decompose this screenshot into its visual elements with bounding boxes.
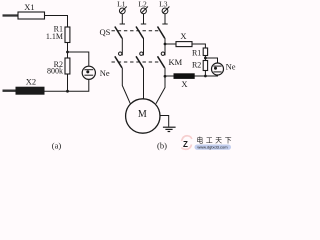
probe X2 tip: [3, 89, 17, 91]
node tester tap after QS: [164, 43, 167, 46]
resistor R2: [65, 58, 70, 74]
resistor R1: [65, 27, 70, 43]
terminal L2: [141, 7, 148, 14]
svg-text:www.dgtxd3.com: www.dgtxd3.com: [197, 145, 228, 150]
svg-text:M: M: [138, 109, 147, 120]
resistor R1 (b): [203, 48, 207, 56]
node bottom (b): [204, 75, 207, 78]
watermark logo: [182, 136, 192, 150]
svg-text:(a): (a): [52, 140, 62, 150]
svg-text:Z: Z: [183, 140, 188, 149]
svg-text:R2: R2: [192, 60, 201, 69]
wire L2 to QS contact: [141, 14, 146, 24]
contactor KM pole 1 contact: [119, 52, 122, 55]
svg-text:KM: KM: [169, 57, 183, 67]
contactor KM pole 2 blade: [136, 56, 143, 68]
ground: [163, 127, 176, 131]
contactor KM pole 2 contact: [140, 52, 143, 55]
contactor KM pole 3 contact: [161, 52, 164, 55]
wire L3 to QS contact: [162, 14, 167, 24]
switch QS pole 1 blade: [115, 27, 122, 39]
wire L1 to QS contact: [120, 14, 125, 24]
wire lamp bottom to junction: [44, 79, 89, 91]
node tester tap after KM: [164, 75, 167, 78]
QS linkage dashed: [112, 30, 160, 32]
terminal L3: [162, 7, 169, 14]
wire R1 to node: [67, 43, 69, 59]
svg-text:R1: R1: [192, 49, 201, 58]
wire probe X black to KM node: [165, 75, 174, 77]
wire node to lamp: [68, 52, 89, 66]
contactor KM pole 1 blade: [115, 56, 122, 68]
wire probe X to R1: [192, 44, 205, 48]
neon lamp Ne (b): [212, 63, 224, 75]
svg-text:X2: X2: [26, 77, 36, 87]
node R1/R2 junction: [66, 51, 69, 54]
neon lamp Ne (a): [82, 66, 95, 79]
wire KM to motor phase 1: [122, 68, 130, 104]
probe X (white body): [176, 42, 192, 47]
svg-text:Ne: Ne: [100, 68, 110, 78]
wire R1 to node (b): [204, 56, 206, 61]
svg-text:电工天下: 电工天下: [197, 136, 235, 145]
probe X1 body: [18, 12, 45, 19]
wire X1 to R1: [45, 16, 68, 28]
probe X (black body): [174, 74, 194, 79]
wire QS to KM pole 3: [164, 38, 166, 55]
svg-text:L1: L1: [117, 0, 126, 8]
node R1/R2 (b): [204, 57, 207, 60]
wire KM to motor phase 2: [143, 68, 145, 99]
node bottom junction (a): [66, 90, 69, 93]
wire bottom node to probe X black: [194, 75, 205, 77]
wire node to probe X: [165, 43, 176, 45]
svg-text:800k: 800k: [47, 66, 63, 75]
svg-text:L2: L2: [138, 0, 147, 8]
svg-text:1.1M: 1.1M: [46, 32, 63, 41]
svg-text:L3: L3: [159, 0, 168, 8]
wire R2 to bottom: [67, 74, 69, 91]
wire node to lamp (b): [205, 58, 217, 63]
KM linkage dashed: [112, 61, 160, 63]
svg-text:X: X: [181, 79, 187, 89]
svg-text:X: X: [180, 31, 186, 41]
wire KM to motor phase 3: [156, 68, 165, 104]
wire QS to KM pole 2: [143, 38, 145, 55]
contactor KM pole 3 blade: [158, 56, 165, 68]
watermark banner: [195, 145, 232, 150]
wire R2 to bottom node (b): [204, 71, 206, 77]
svg-text:QS: QS: [100, 27, 111, 37]
motor M: [126, 99, 160, 133]
wire QS to KM pole 1: [121, 38, 123, 55]
resistor R2 (b): [203, 61, 207, 71]
wire lamp bottom to node (b): [205, 75, 217, 76]
svg-text:X1: X1: [24, 2, 34, 12]
wire motor to ground: [160, 116, 169, 127]
switch QS pole 3 blade: [158, 27, 165, 39]
probe X1 tip: [3, 14, 19, 16]
svg-text:(b): (b): [157, 140, 167, 150]
switch QS pole 2 blade: [136, 27, 143, 39]
terminal L1: [119, 7, 126, 14]
probe X2 body: [16, 87, 44, 94]
svg-text:Ne: Ne: [226, 62, 236, 72]
